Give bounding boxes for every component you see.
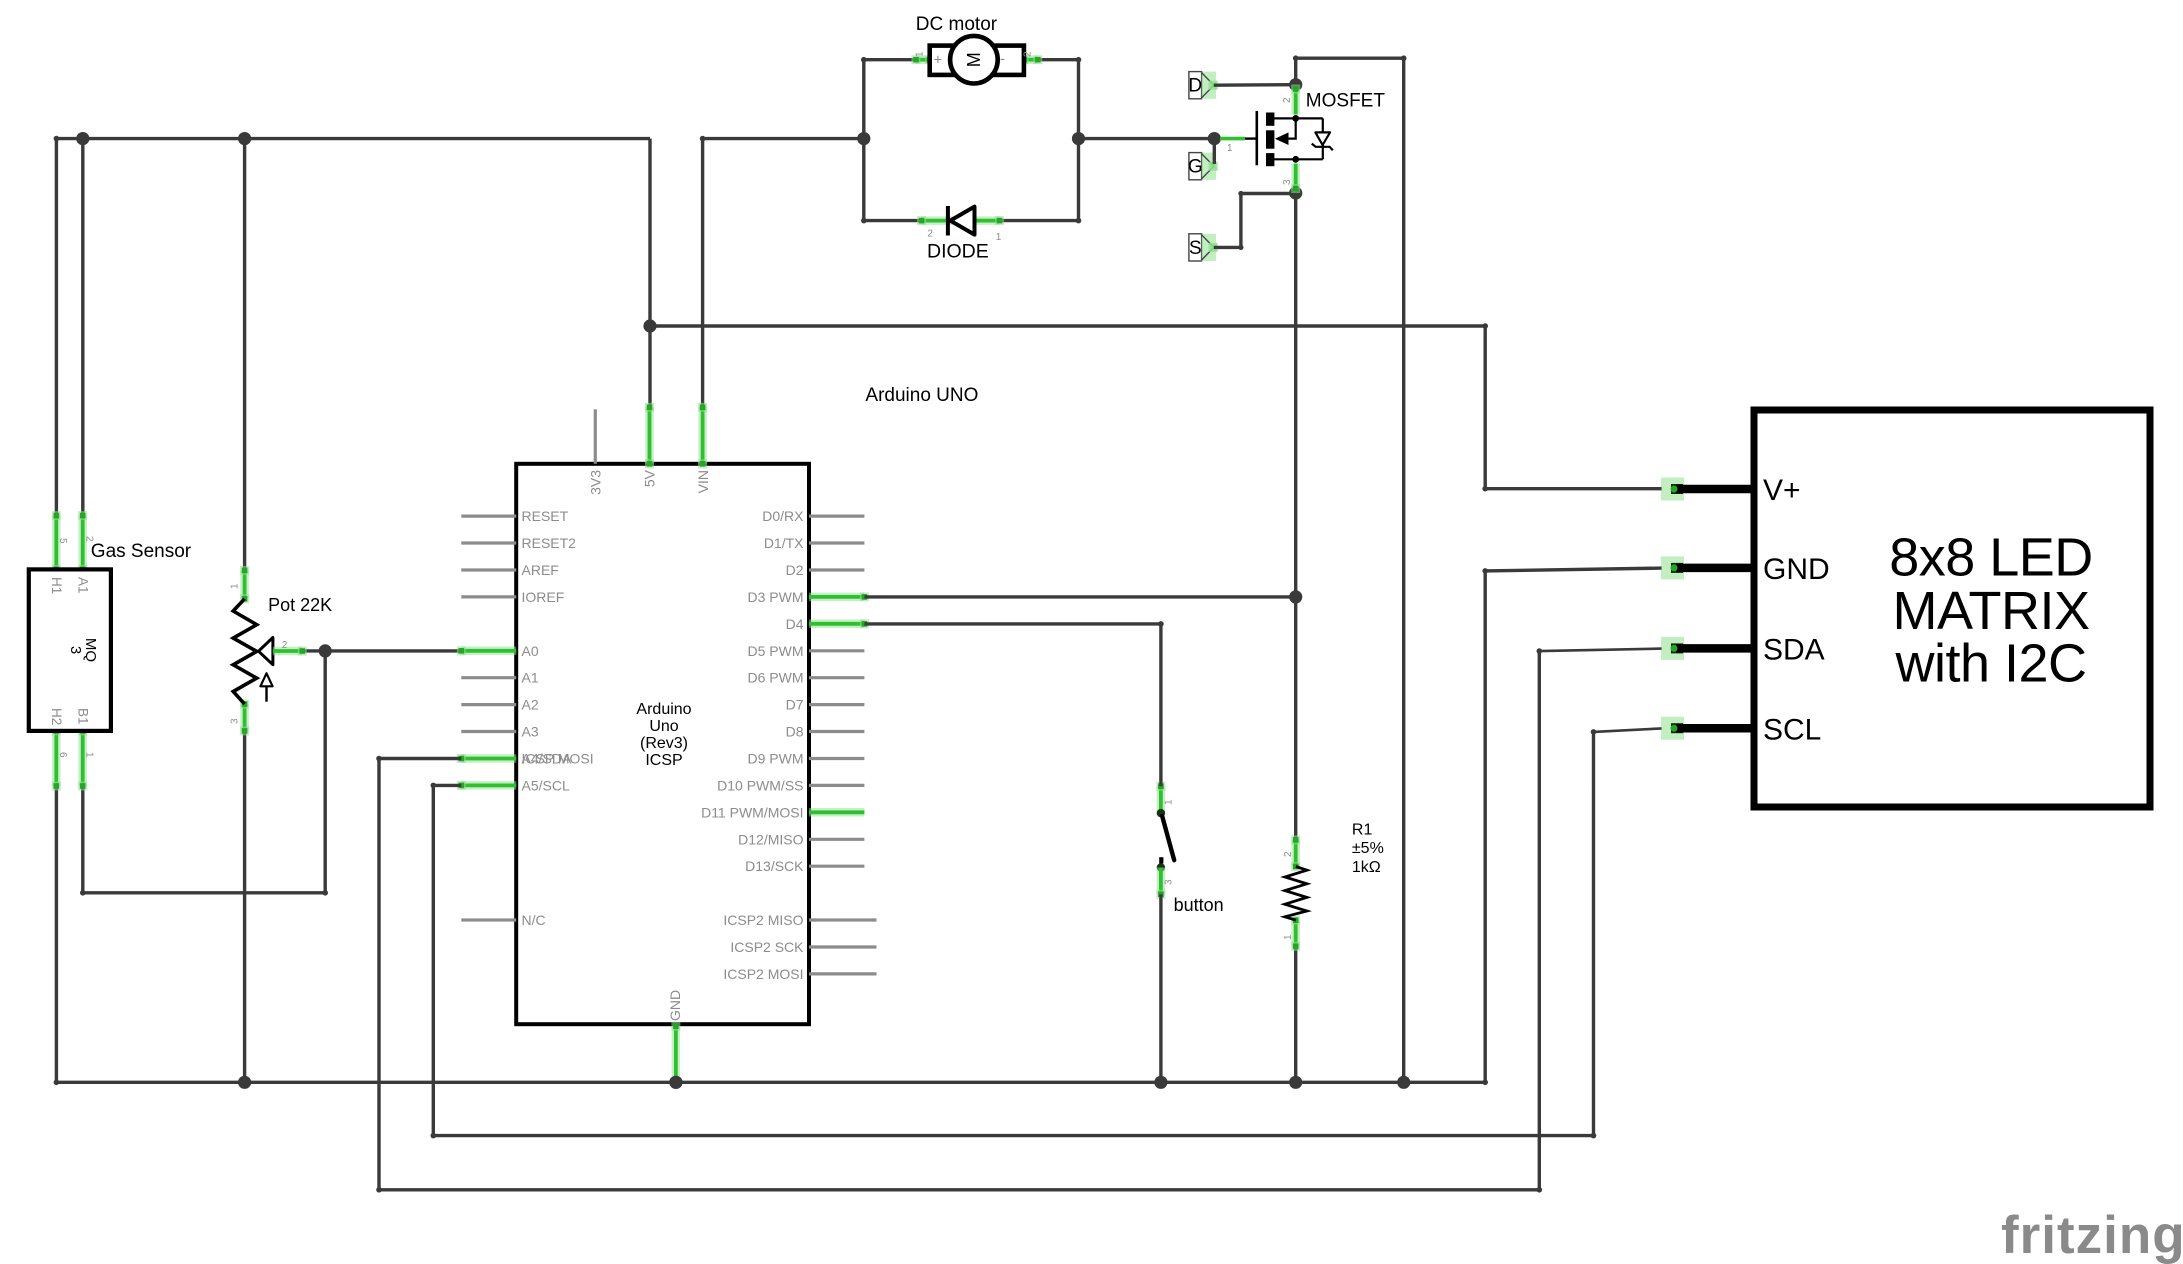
svg-text:VIN: VIN [695,470,711,493]
svg-text:D5 PWM: D5 PWM [748,643,804,659]
svg-text:GND: GND [1763,553,1830,586]
svg-text:Pot 22K: Pot 22K [268,595,332,615]
node junction button/rail [1154,1076,1167,1089]
svg-text:R1: R1 [1352,821,1373,838]
svg-text:1: 1 [996,232,1002,243]
node junction GND/rail [669,1076,682,1089]
wire S flag to source [1214,194,1296,248]
svg-text:D4: D4 [786,616,804,632]
node junction D3 [1289,590,1302,603]
svg-text:1: 1 [1164,799,1175,805]
svg-text:D7: D7 [786,697,804,713]
pin GND (green) [672,1026,681,1082]
svg-text:H1: H1 [49,577,64,594]
IC U3 8x8 LED matrix [1661,410,2150,807]
pin N/C [461,918,516,921]
node junction wiper/A0 [319,644,332,657]
IC U1 Gas Sensor MQ-3 [29,511,111,790]
svg-text:button: button [1174,895,1224,915]
wire motor loop left vertical [862,60,865,221]
svg-text:A5/SCL: A5/SCL [522,777,570,793]
wire A4/SDA to matrix SDA [379,651,1539,1190]
svg-text:1: 1 [915,51,926,57]
motor M1 (DC motor) [912,36,1043,84]
svg-text:V+: V+ [1763,474,1801,507]
pin ICSP2 SCK [809,945,877,948]
wire VIN drop [701,139,704,408]
svg-text:D13/SCK: D13/SCK [745,858,804,874]
svg-text:6: 6 [57,752,68,758]
svg-text:fritzing: fritzing [2001,1206,2183,1264]
svg-text:M: M [964,52,984,67]
svg-text:3: 3 [230,718,241,724]
pin D6 PWM [809,676,864,679]
pin ICSP2 MISO [809,918,877,921]
svg-text:SDA: SDA [1763,634,1825,667]
svg-text:D6 PWM: D6 PWM [748,670,804,686]
wire H2 to rail [55,786,58,1082]
svg-text:ICSP: ICSP [645,752,682,769]
pin 3 lead (source) [1291,164,1300,189]
svg-text:H2: H2 [49,708,64,725]
pin 2 lead (drain) [1291,89,1300,115]
pin D9 PWM [809,757,864,760]
svg-text:Gas Sensor: Gas Sensor [91,541,192,562]
pin RESET [461,514,516,517]
wire drain to ground rail (right vertical) [1296,58,1404,1082]
label flag G (gate) [1188,153,1218,180]
pin D8 [809,730,864,733]
potentiometer R2 Pot 22K [233,566,307,736]
node junction R1/rail [1289,1076,1302,1089]
svg-text:G: G [1188,157,1203,178]
svg-text:8x8 LED: 8x8 LED [1889,528,2093,588]
wire motor-right to MOSFET gate [1079,137,1215,140]
svg-text:B1: B1 [76,708,91,725]
wire from motor pin2 [1038,58,1079,61]
resistor R1 [1285,835,1307,950]
wire B1 to pot wiper [83,651,325,893]
wire ground rail [56,1081,1485,1084]
node rail left corner [54,1080,60,1086]
wire SDA approach [1539,649,1662,652]
pin A3 [461,730,516,733]
pin A1 [461,676,516,679]
wire D flag to drain [1214,83,1296,87]
pin 3V3 [594,409,597,464]
pin A5/SCL (green) [461,781,516,790]
wire to motor pin1 [864,58,916,61]
svg-text:ICSP2 SCK: ICSP2 SCK [730,939,804,955]
node VIN corner [700,136,706,142]
label flag D (drain) [1188,72,1217,99]
pin ICSP2 MOSI [809,972,877,975]
svg-text:MATRIX: MATRIX [1893,581,2090,641]
svg-text:Arduino UNO: Arduino UNO [865,385,978,406]
wire junction to A0 [325,649,460,652]
svg-text:Arduino: Arduino [636,701,691,718]
svg-text:N/C: N/C [522,912,546,928]
svg-text:with I2C: with I2C [1894,634,2086,694]
wire source to D3 junction [1294,193,1297,597]
wire from diode pin1 [1000,219,1079,222]
svg-text:SCL: SCL [1763,714,1821,747]
pin D12/MISO [809,838,864,841]
diode D1 [917,206,1004,236]
wire 5V to matrix V+ [650,326,1662,489]
node rail left end [54,136,60,142]
svg-text:Uno: Uno [649,718,678,735]
wire D3 junction to R1 [1294,597,1297,840]
label flag S (source) [1189,234,1218,261]
svg-text:D1/TX: D1/TX [764,535,804,551]
pin A4/SDA (green) [461,754,516,763]
svg-text:GND: GND [667,990,683,1021]
svg-text:3V3: 3V3 [588,470,604,495]
svg-text:D3 PWM: D3 PWM [748,589,804,605]
node source junction [1289,186,1302,199]
svg-text:1: 1 [1283,934,1294,940]
node junction right-vertical/rail [1397,1076,1410,1089]
svg-text:3: 3 [1282,179,1293,185]
pin 5V (green) [645,407,654,464]
wire top rail (sensor to 5V) [56,137,650,140]
svg-text:A4/SDA: A4/SDA [522,751,572,767]
wire pot pin3 to rail [243,731,246,1082]
node junction 5V/V+ branch [643,319,656,332]
svg-text:A3: A3 [522,724,539,740]
pin D4 (green) [809,620,864,629]
wire to diode pin2 [864,219,922,222]
pin IOREF [461,595,516,598]
wire A1 drop [81,139,84,516]
svg-text:DC motor: DC motor [916,14,998,35]
pin D2 [809,568,864,571]
pin VIN (green) [698,407,707,464]
pin D10 PWM/SS [809,784,864,787]
wire pot pin1 drop [243,139,246,571]
svg-text:DIODE: DIODE [927,241,989,263]
svg-text:2: 2 [1282,97,1293,103]
wire VIN to motor-left [703,137,864,140]
pin D7 [809,703,864,706]
wire SCL approach [1594,728,1663,732]
svg-text:1kΩ: 1kΩ [1352,859,1381,876]
svg-text:(Rev3): (Rev3) [640,735,688,752]
node junction pot1/top-rail [238,132,251,145]
node gate junction [1208,132,1221,145]
pin D13/SCK [809,865,864,868]
svg-text:+: + [934,52,943,69]
svg-text:2: 2 [927,229,933,240]
svg-text:5: 5 [57,538,68,544]
svg-text:2: 2 [282,640,288,651]
svg-text:MOSFET: MOSFET [1306,91,1386,112]
svg-text:RESET2: RESET2 [522,535,577,551]
svg-text:ICSP2 MOSI: ICSP2 MOSI [723,966,803,982]
svg-text:RESET: RESET [522,508,569,524]
svg-text:A2: A2 [522,697,539,713]
node junction pot3/rail [238,1076,251,1089]
pin D0/RX [809,514,864,517]
node rail right corner [1482,1080,1488,1086]
wire A5/SCL to matrix SCL [433,732,1593,1136]
transistor Q1 MOSFET [1220,111,1333,166]
wire 5V drop [648,139,651,408]
wire H1 drop [55,139,58,516]
svg-text:1: 1 [230,583,241,589]
svg-text:1: 1 [84,752,95,758]
svg-text:D11 PWM/MOSI: D11 PWM/MOSI [701,804,803,820]
svg-text:IOREF: IOREF [522,589,565,605]
svg-text:ICSP2 MISO: ICSP2 MISO [723,912,803,928]
pin D1/TX [809,541,864,544]
svg-text:AREF: AREF [522,562,559,578]
svg-text:3: 3 [67,646,84,654]
pin RESET2 [461,541,516,544]
node junction motor-right [1072,132,1085,145]
node drain junction [1289,78,1302,91]
svg-text:S: S [1189,238,1202,259]
svg-text:A1: A1 [76,577,91,594]
pin AREF [461,568,516,571]
wire G flag to gate junction [1213,139,1216,164]
svg-text:D12/MISO: D12/MISO [738,831,803,847]
wire R1 to ground rail [1294,946,1297,1082]
wire button to ground rail [1159,894,1162,1082]
IC U2 Arduino Uno [516,464,809,1024]
pin D11 PWM/MOSI (green) [809,808,864,817]
wire motor loop right vertical [1077,60,1080,221]
svg-text:A0: A0 [522,643,539,659]
wire pot pin2 to junction [302,649,325,652]
svg-text:D10 PWM/SS: D10 PWM/SS [717,777,803,793]
pin A2 [461,703,516,706]
svg-text:2: 2 [1283,851,1294,857]
node junction motor-left [857,132,870,145]
svg-text:3: 3 [1164,879,1175,885]
svg-text:5V: 5V [642,469,658,487]
svg-text:±5%: ±5% [1352,840,1384,857]
wire drain stub [1294,58,1297,84]
svg-text:-: - [1000,51,1005,68]
pin D5 PWM [809,649,864,652]
svg-text:D2: D2 [786,562,804,578]
node junction A1/top-rail [76,132,89,145]
switch button [1156,782,1174,899]
svg-text:A1: A1 [522,670,539,686]
svg-text:D9 PWM: D9 PWM [748,751,804,767]
pin A0 (green) [461,647,516,656]
wire D4 to button [864,624,1161,786]
svg-text:D0/RX: D0/RX [762,508,804,524]
pin D3 PWM (green) [809,593,864,602]
svg-text:2: 2 [1023,51,1034,57]
wire matrix GND to rail [1485,568,1662,1082]
svg-text:D8: D8 [786,724,804,740]
svg-text:1: 1 [1227,143,1233,154]
svg-text:D: D [1188,76,1202,97]
wire D3 to source/R1 junction [864,595,1295,598]
